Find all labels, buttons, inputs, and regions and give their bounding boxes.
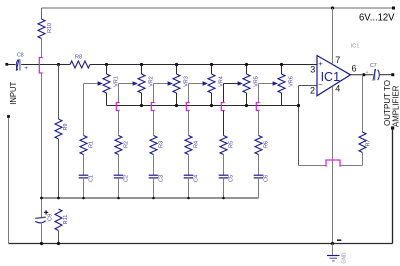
wire C1 to VREF bus [83,178,85,198]
node V+ terminal [392,7,395,10]
label VR4 [218,76,224,87]
pin 7 number [335,55,340,65]
wire wiper column band 4 lower [188,111,190,136]
node VR2 top junction [140,63,143,66]
wire wiper column band 4 upper [188,84,190,103]
node C1 VREF junction [82,197,85,200]
wire VR6 bottom lead [281,93,283,106]
wire top bus to IC1 pin3 [107,64,318,66]
label C7 plus [365,70,369,76]
resistor R1 [80,136,87,155]
wire R11 to ground [58,231,60,244]
wiper arrow VR5 [238,81,243,86]
label R5 [229,141,235,148]
node pin4 ground junction [331,242,334,245]
wire R1 to C1 [83,155,85,176]
wire VR5 wiper [224,83,239,85]
label AMPLIFIER [390,86,400,128]
bump band 5 hops VR bus [221,103,224,111]
label C8 [17,53,24,59]
node input terminal 1 [5,63,8,66]
wire VR1 wiper [84,83,99,85]
wire R9 to VREF bus [58,139,60,198]
label 6V...12V [359,12,395,24]
node VR5 bottom junction [245,104,248,107]
op-amp plus sign [318,59,323,68]
wire wiper column band 2 upper [118,84,120,103]
wire VR4 wiper [189,83,204,85]
potentiometer VR3 [173,74,180,93]
capacitor C4 [184,175,194,178]
wiper arrow VR2 [133,81,138,86]
wire C4 to VREF bus [188,178,190,198]
svg-text:3: 3 [310,64,315,74]
bump band 2 hops VR bus [116,103,119,111]
resistor R11 [55,209,62,231]
resistor R7 [359,132,366,153]
node C9 ground junction [40,242,43,245]
svg-text:C6: C6 [264,175,270,182]
label OUTPUT TO [382,80,392,126]
node VR5 top junction [245,63,248,66]
resistor R5 [220,136,227,155]
wire VR6 top lead [281,65,283,75]
mark near ground bus [337,239,341,241]
wire VR5 bottom lead [246,93,248,106]
svg-text:R1: R1 [89,141,95,148]
svg-text:4: 4 [335,83,340,93]
potentiometer VR1 [103,74,110,93]
wire wiper column band 6 lower [258,111,260,136]
wire IC1 pin7 [332,8,334,64]
svg-text:INPUT: INPUT [8,81,18,105]
wire VR4 bottom lead [211,93,213,106]
label C9 plus [44,210,48,214]
label R2 [124,141,130,148]
node output junction [362,73,365,76]
wire wiper column band 2 lower [118,111,120,136]
pin 2 number [310,86,315,96]
label C1 [89,175,95,182]
wire output junction to R7 [362,75,364,132]
svg-text:R9: R9 [63,123,69,130]
wiper arrow VR4 [203,81,208,86]
label INPUT [8,81,18,105]
wire C6 to VREF bus [258,178,260,198]
wiper arrow VR6 [273,81,278,86]
wire IC1 pin4 to ground [332,86,334,243]
label C7 [370,63,377,69]
wire VR2 bottom lead [141,93,143,106]
wire C5 to VREF bus [223,178,225,198]
capacitor C9 [35,217,45,223]
bump R10 wire hops input wire [39,58,42,74]
resistor R3 [150,136,157,155]
potentiometer VR4 [208,74,215,93]
label VR2 [148,76,154,87]
label R9 [63,123,69,130]
wire VR3 bottom lead [176,93,178,106]
svg-text:R3: R3 [159,141,165,148]
wire R7 to feedback corner [340,153,363,166]
op-amp IC1 [317,56,351,96]
wire R5 to C5 [223,155,225,176]
potentiometer VR5 [243,74,250,93]
resistor R9 [55,119,62,139]
wire R3 to C3 [153,155,155,176]
svg-text:IC1: IC1 [321,70,341,84]
wire IC1 output [351,74,374,76]
wire V+ rail corner to R10 [41,8,43,19]
capacitor C1 [79,175,89,178]
svg-text:C9: C9 [48,214,54,221]
label R10 [47,23,53,33]
node C3 VREF junction [152,197,155,200]
wire C2 to VREF bus [118,178,120,198]
wire inverting node vertical [298,86,300,166]
wire bump to VREF bus [41,73,43,218]
svg-text:R8: R8 [75,54,82,60]
wire input to C8 [8,64,16,66]
svg-text:−: − [318,80,323,89]
label C6 [264,175,270,182]
svg-text:C4: C4 [194,175,200,182]
node VR2 bottom junction [140,104,143,107]
svg-text:R10: R10 [47,23,53,33]
svg-text:6: 6 [352,64,357,74]
wire ground bus [9,243,393,245]
wire VR1 bottom lead [106,93,108,106]
label VR5 [253,76,259,87]
pin 6 number [352,64,357,74]
svg-text:+: + [318,59,323,68]
bump band 3 hops VR bus [151,103,154,111]
capacitor C2 [114,175,124,178]
node C5 VREF junction [222,197,225,200]
wire C7 to output terminal [380,74,393,76]
resistor R6 [255,136,262,155]
resistor R10 [38,19,45,39]
wire VREF bus [42,197,259,199]
label C4 [194,175,200,182]
node output terminal 2 [391,126,394,129]
pin 3 number [310,64,315,74]
label C9 [48,214,54,221]
svg-text:R11: R11 [63,215,69,225]
label IC1 inside [321,70,341,84]
svg-text:C2: C2 [124,175,130,182]
potentiometer VR6 [278,74,285,93]
wire feedback to inverting node [299,165,327,167]
node C2 VREF junction [117,197,120,200]
resistor R4 [185,136,192,155]
wire wiper column band 5 lower [223,111,225,136]
label R7 [366,139,372,146]
svg-text:C7: C7 [370,63,377,69]
wire wiper column band 6 upper [258,84,260,103]
bump band 4 hops VR bus [186,103,189,111]
svg-text:R7: R7 [366,139,372,146]
bump feedback hops pin4 wire [326,160,340,167]
ground [327,244,340,261]
svg-text:C8: C8 [17,53,24,59]
node input terminal 2 [7,115,10,118]
wire R10 to bump [41,39,43,58]
node V+ junction pin7 [331,6,334,9]
node junction inverting bus [297,104,300,107]
op-amp minus sign [318,80,323,89]
wire input ground drop [8,118,10,244]
wiper arrow VR1 [98,81,103,86]
label R11 [63,215,69,225]
wire VR4 top lead [211,65,213,75]
svg-text:C1: C1 [89,175,95,182]
capacitor C8 [16,59,20,70]
wire output ground drop [392,130,394,244]
node output terminal 1 [391,73,394,76]
label IC1 ref [351,44,360,50]
svg-text:GND: GND [342,252,348,264]
label R4 [194,141,200,148]
wire VR3 wiper [154,83,169,85]
label GND [342,252,348,264]
wire VR5 top lead [246,65,248,75]
wire C3 to VREF bus [153,178,155,198]
svg-text:7: 7 [335,55,340,65]
wiper arrow VR3 [168,81,173,86]
label R1 [89,141,95,148]
svg-text:6V...12V: 6V...12V [359,12,395,24]
wire R6 to C6 [258,155,260,176]
wire node A to R8 [59,64,71,66]
pin 4 number [335,83,340,93]
svg-text:C5: C5 [229,175,235,182]
wire wiper column band 3 lower [153,111,155,136]
node VR4 top junction [210,63,213,66]
svg-text:R5: R5 [229,141,235,148]
capacitor C3 [149,175,159,178]
wire R8 to top bus [90,64,107,66]
wire wiper column band 1 [83,84,85,136]
wire C8 to node A [21,64,58,66]
node VREF R9/R11 junction [57,197,60,200]
bump band 6 hops VR bus [256,103,259,111]
wire VR1 top lead [106,65,108,75]
svg-text:VR6: VR6 [288,76,294,87]
wire node A down to R9 [58,65,60,120]
label C3 [159,175,165,182]
wire R2 to C2 [118,155,120,176]
capacitor C6 [254,175,264,178]
resistor R8 [70,61,90,68]
label R3 [159,141,165,148]
wire C9 to ground [41,223,43,244]
node VR3 top junction [175,63,178,66]
svg-text:R4: R4 [194,141,200,148]
label C2 [124,175,130,182]
svg-text:+: + [24,65,28,72]
node VR6 top junction [280,63,283,66]
svg-text:IC1: IC1 [351,44,360,50]
node R11 ground junction [57,242,60,245]
svg-text:C3: C3 [159,175,165,182]
node VR4 bottom junction [210,104,213,107]
wire wiper column band 5 upper [223,84,225,103]
label R6 [264,141,270,148]
label R8 [75,54,82,60]
svg-text:2: 2 [310,86,315,96]
svg-text:AMPLIFIER: AMPLIFIER [390,86,400,128]
wire VR2 top lead [141,65,143,75]
svg-text:R2: R2 [124,141,130,148]
wire VR3 top lead [176,65,178,75]
wire VR6 wiper [259,83,274,85]
node A junction C8/R8/R9 [57,63,60,66]
wire R4 to C4 [188,155,190,176]
label C8 plus [24,65,28,72]
label C5 [229,175,235,182]
resistor R2 [115,136,122,155]
label VR1 [113,76,119,87]
wire V+ top rail [42,7,394,9]
svg-text:R6: R6 [264,141,270,148]
node C4 VREF junction [187,197,190,200]
label VR6 [288,76,294,87]
label VR3 [183,76,189,87]
node junction R8/VR1 top [105,63,108,66]
capacitor C7 [373,69,379,81]
capacitor C5 [219,175,229,178]
wire wiper column band 3 upper [153,84,155,103]
wire IC1 pin2 lead [299,85,318,87]
wire VR2 wiper [119,83,134,85]
node VREF R10/C9 junction [40,197,43,200]
node VR3 bottom junction [175,104,178,107]
potentiometer VR2 [138,74,145,93]
wire VR bottom bus [107,105,299,107]
